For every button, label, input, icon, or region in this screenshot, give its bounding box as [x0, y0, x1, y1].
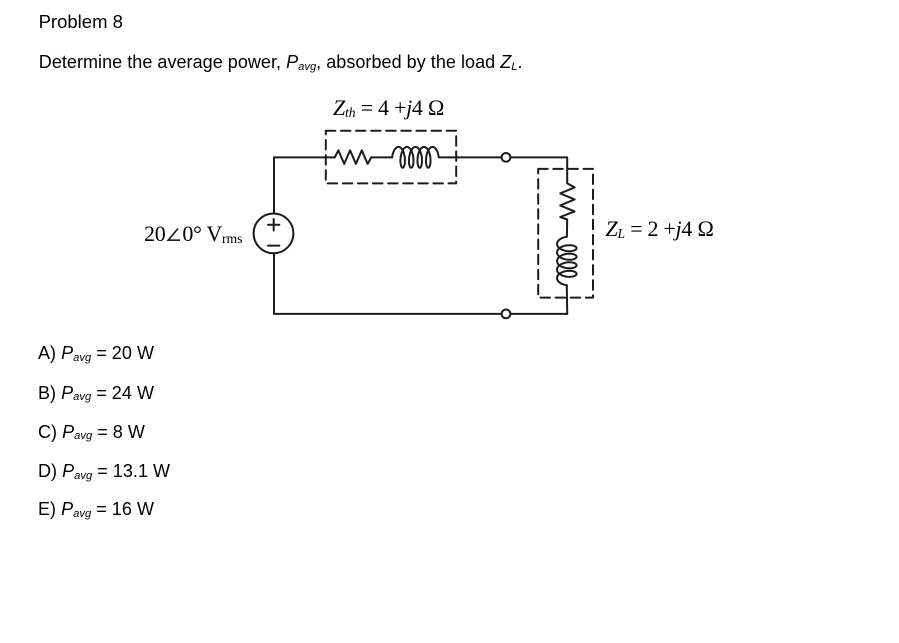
wire: load resistor to load inductor: [566, 220, 568, 237]
label Zth = 4 +j4 ohm: [333, 95, 444, 121]
wire: node b to bottom-right corner up to load: [510, 313, 567, 315]
inductor LL (load reactance j4 ohm): [557, 237, 577, 285]
resistor R (Zth real part 4 ohm): [335, 150, 372, 164]
dashed box ZL: [538, 169, 593, 298]
option D: [38, 461, 170, 482]
voltage source minus sign: [268, 245, 279, 247]
wire: top-left horizontal from source branch to Zth resistor: [274, 156, 335, 158]
wire: source bottom to bottom-left corner and right to node b: [274, 253, 502, 314]
option B: [38, 383, 154, 404]
resistor RL (load real part 2 ohm): [560, 183, 574, 219]
option C: [38, 422, 145, 443]
option E: [38, 499, 154, 520]
wire: node a to top-right corner and down to load: [510, 157, 567, 183]
wire: left vertical from top wire down to source +: [273, 157, 275, 213]
label source value 20 angle 0 Vrms: [144, 221, 242, 247]
inductor L (Zth reactance j4 ohm): [392, 147, 439, 168]
title: [39, 11, 123, 33]
wire: between Zth resistor and Zth inductor: [371, 156, 392, 158]
problem statement: [39, 52, 523, 73]
label ZL = 2 +j4 ohm: [606, 216, 714, 242]
wire: load inductor to bottom wire: [566, 285, 568, 314]
node b (bottom terminal circle): [502, 310, 511, 319]
voltage source plus sign: [268, 219, 279, 231]
dashed box Zth: [326, 131, 456, 184]
wire: Zth inductor to node a: [439, 156, 502, 158]
node a (top terminal circle): [502, 153, 511, 162]
option A: [38, 343, 154, 364]
voltage source VS circle: [254, 214, 294, 254]
